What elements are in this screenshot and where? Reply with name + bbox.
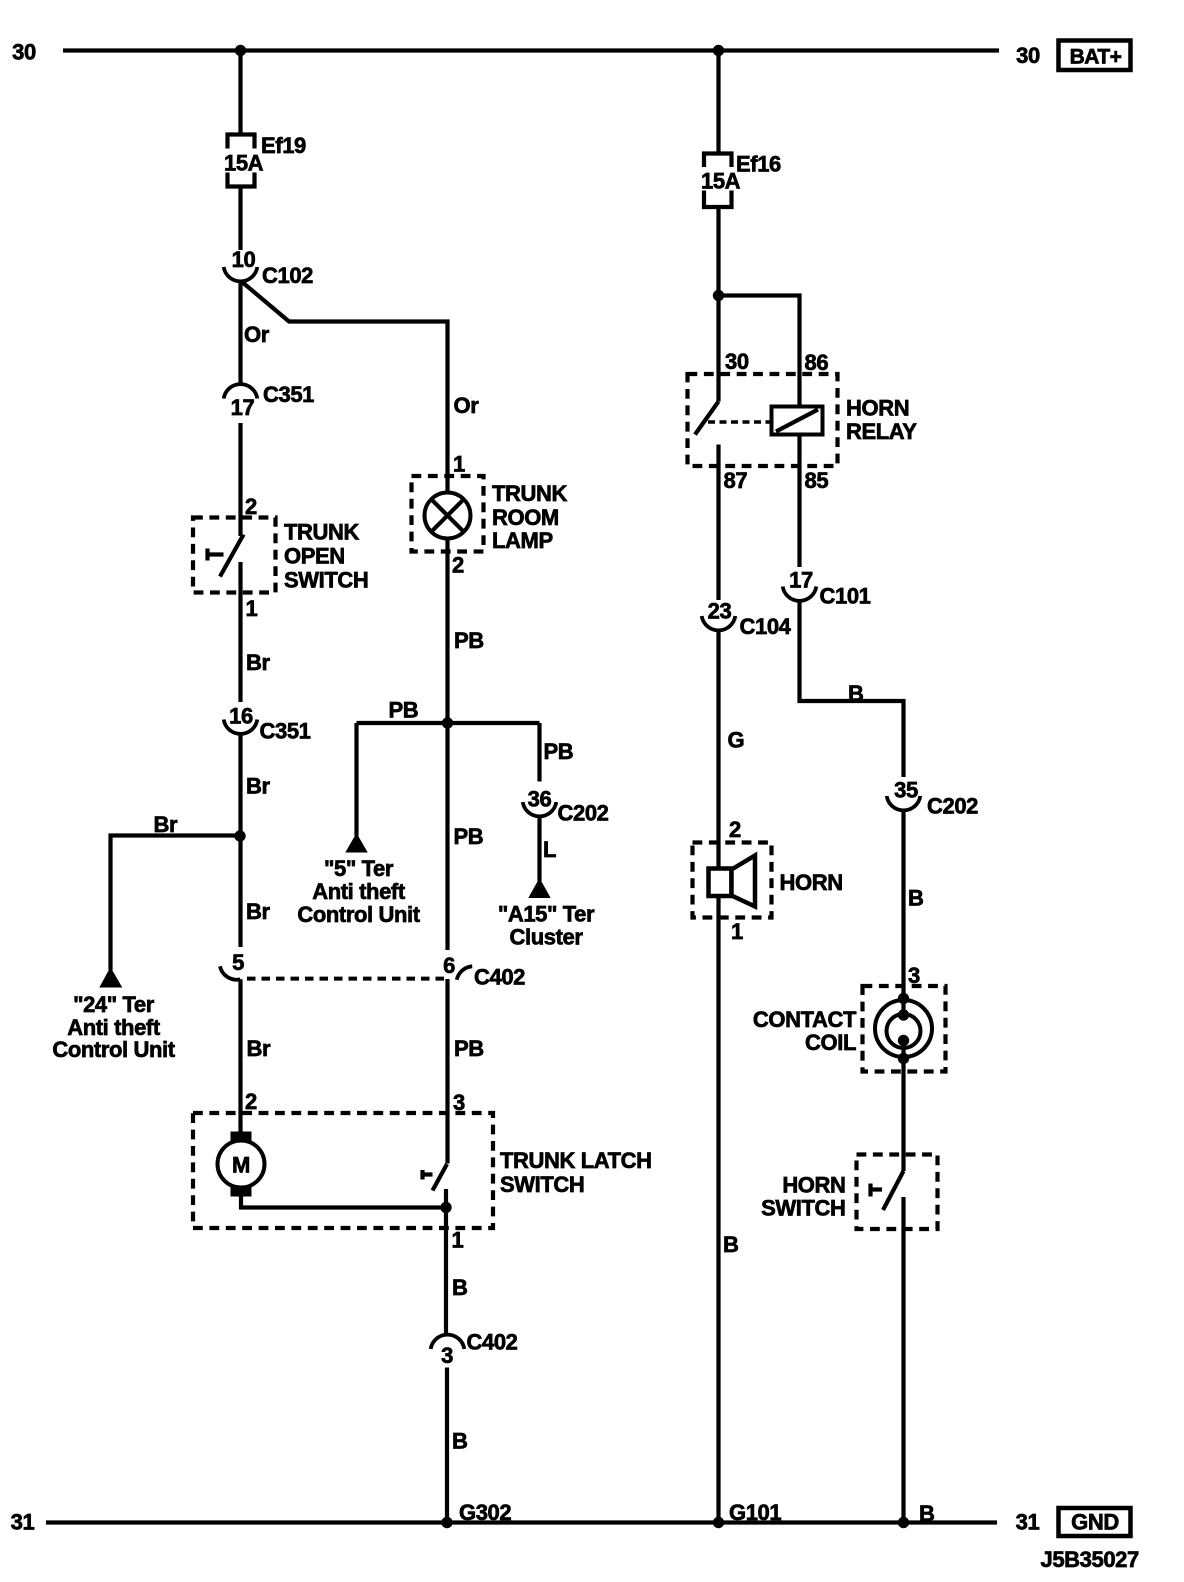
fuse Ef16 15A	[701, 152, 781, 208]
svg-text:SWITCH: SWITCH	[500, 1172, 584, 1197]
contact coil	[875, 993, 932, 1064]
motor M	[218, 1141, 265, 1188]
wire	[238, 423, 242, 536]
wire lamp down	[445, 539, 449, 951]
wire	[716, 207, 720, 296]
svg-text:B: B	[723, 1232, 739, 1257]
svg-text:"24" Ter: "24" Ter	[73, 992, 155, 1017]
svg-text:30: 30	[725, 349, 749, 374]
svg-text:Anti theft: Anti theft	[312, 879, 406, 904]
svg-text:Control Unit: Control Unit	[297, 902, 420, 927]
svg-text:B: B	[848, 681, 864, 706]
svg-text:C101: C101	[820, 584, 871, 609]
wire to horn	[716, 630, 720, 869]
svg-text:86: 86	[805, 350, 829, 375]
svg-text:17: 17	[789, 568, 813, 593]
junction dot bottom right	[898, 1517, 909, 1528]
svg-text:HORN: HORN	[782, 1173, 845, 1198]
horn relay label	[846, 396, 917, 445]
wire to cluster branch	[537, 723, 541, 782]
horn relay box	[688, 374, 838, 466]
trunk open switch label	[284, 520, 368, 593]
svg-text:Control Unit: Control Unit	[52, 1037, 175, 1062]
horn relay coil	[772, 407, 823, 435]
svg-text:Br: Br	[154, 812, 178, 837]
svg-text:COIL: COIL	[805, 1030, 856, 1055]
connector C402 pin 3	[431, 1330, 518, 1369]
svg-text:15A: 15A	[701, 169, 741, 194]
contact coil label	[753, 1007, 857, 1055]
junction right bus	[713, 45, 724, 56]
motor M bottom terminal	[231, 1187, 252, 1197]
node "24" Ter Anti theft Control Unit	[52, 969, 175, 1062]
wire motor to junction	[241, 1197, 446, 1208]
svg-text:C402: C402	[467, 1330, 518, 1355]
wire	[716, 51, 720, 154]
wire jog to B column	[800, 601, 904, 778]
trunk room lamp	[425, 493, 471, 539]
svg-text:ROOM: ROOM	[492, 505, 559, 530]
wire	[444, 1208, 448, 1336]
svg-text:TRUNK: TRUNK	[492, 481, 568, 506]
wire	[537, 816, 541, 881]
trunk latch switch label	[500, 1148, 652, 1197]
svg-text:31: 31	[11, 1510, 35, 1535]
svg-text:PB: PB	[454, 628, 484, 653]
svg-text:HORN: HORN	[780, 870, 843, 895]
svg-text:Br: Br	[246, 899, 270, 924]
trunk room lamp label	[492, 481, 568, 553]
junction dot G302	[441, 1517, 452, 1528]
svg-text:C104: C104	[740, 614, 792, 639]
trunk latch switch plunger	[423, 1170, 433, 1180]
svg-text:1: 1	[452, 1228, 464, 1253]
svg-text:"A15" Ter: "A15" Ter	[498, 902, 595, 927]
svg-text:C102: C102	[262, 263, 313, 288]
svg-text:16: 16	[229, 704, 253, 729]
svg-text:C402: C402	[474, 965, 525, 990]
svg-text:PB: PB	[389, 698, 419, 723]
svg-text:PB: PB	[454, 824, 484, 849]
svg-text:CONTACT: CONTACT	[753, 1007, 857, 1032]
junction dot G101	[713, 1517, 724, 1528]
junction dot latch	[440, 1202, 451, 1213]
svg-text:G: G	[728, 728, 745, 753]
trunk room lamp box	[412, 476, 484, 552]
wire	[238, 734, 242, 948]
svg-text:C202: C202	[558, 801, 609, 826]
svg-text:BAT+: BAT+	[1070, 46, 1122, 69]
wire	[238, 51, 242, 135]
horn relay mech link	[708, 420, 772, 423]
connector C202 pin 35	[887, 778, 978, 819]
wire	[445, 1368, 449, 1523]
wire PB branch horizontal	[357, 721, 540, 725]
trunk latch switch blade	[433, 1164, 448, 1191]
svg-text:Br: Br	[246, 650, 270, 675]
svg-text:85: 85	[805, 468, 829, 493]
svg-text:Or: Or	[244, 322, 270, 347]
svg-text:5: 5	[232, 950, 244, 975]
wire to anti theft 5	[354, 723, 358, 836]
wire	[238, 979, 242, 1131]
svg-text:1: 1	[731, 919, 743, 944]
trunk open switch blade	[220, 535, 244, 577]
motor M top terminal	[231, 1132, 252, 1142]
svg-text:PB: PB	[544, 739, 574, 764]
trunk latch switch fixed contact	[444, 1189, 448, 1208]
svg-text:30: 30	[12, 40, 36, 65]
svg-text:PB: PB	[454, 1036, 484, 1061]
trunk latch switch box	[193, 1113, 493, 1228]
wire bus 31	[46, 1520, 997, 1524]
svg-text:SWITCH: SWITCH	[761, 1196, 845, 1221]
horn switch box	[857, 1155, 938, 1230]
svg-text:Or: Or	[454, 393, 480, 418]
svg-text:2: 2	[245, 1089, 257, 1114]
horn switch label	[761, 1173, 845, 1221]
connector C202 pin 36	[523, 787, 609, 826]
svg-text:TRUNK: TRUNK	[284, 520, 360, 545]
node "A15" Ter Cluster	[498, 880, 595, 950]
wire	[901, 1059, 905, 1172]
connector C402 pin 5	[220, 950, 244, 980]
connector C402 dashed link	[247, 977, 449, 981]
svg-text:23: 23	[708, 599, 732, 624]
connector C402 pin 6	[443, 953, 525, 990]
svg-text:"5" Ter: "5" Ter	[324, 856, 394, 881]
trunk open switch box	[193, 518, 276, 593]
wire horn to ground	[716, 895, 720, 1523]
svg-text:HORN: HORN	[846, 396, 909, 421]
junction dot Br branch	[234, 830, 245, 841]
wire branch to relay coil	[719, 296, 800, 407]
svg-text:L: L	[543, 837, 556, 862]
svg-text:1: 1	[453, 452, 465, 477]
svg-text:30: 30	[1016, 43, 1040, 68]
svg-text:B: B	[452, 1429, 468, 1454]
fuse Ef19 15A	[224, 133, 306, 187]
horn switch fixed contact / wire	[901, 1197, 905, 1523]
wire branch to trunk room lamp	[242, 282, 448, 493]
wire	[901, 810, 905, 999]
node GND	[1059, 1508, 1131, 1536]
wire	[238, 187, 242, 251]
svg-text:OPEN: OPEN	[284, 544, 345, 569]
svg-text:Ef16: Ef16	[736, 152, 781, 177]
svg-text:B: B	[452, 1275, 468, 1300]
svg-text:C351: C351	[263, 382, 314, 407]
connector C351 pin 17	[224, 382, 314, 420]
junction dot relay branch	[713, 290, 724, 301]
svg-text:1: 1	[246, 596, 258, 621]
contact coil box	[863, 986, 946, 1072]
svg-text:Cluster: Cluster	[510, 925, 584, 950]
svg-text:Ef19: Ef19	[261, 133, 306, 158]
svg-text:RELAY: RELAY	[846, 419, 917, 444]
connector C102 pin 10	[224, 247, 313, 288]
connector C351 pin 16	[224, 704, 311, 744]
svg-text:31: 31	[1016, 1510, 1040, 1535]
svg-text:C202: C202	[927, 794, 978, 819]
svg-text:6: 6	[443, 953, 455, 978]
wire branch to anti theft 24	[111, 836, 241, 971]
svg-text:J5B35027: J5B35027	[1041, 1547, 1139, 1572]
svg-text:LAMP: LAMP	[492, 528, 553, 553]
wire relay coil down	[797, 435, 801, 568]
horn speaker	[709, 856, 756, 907]
svg-text:TRUNK LATCH: TRUNK LATCH	[500, 1148, 652, 1173]
connector C101 pin 17	[783, 568, 871, 609]
wire from C402-6 down	[445, 979, 449, 1164]
svg-text:87: 87	[724, 468, 748, 493]
svg-text:2: 2	[729, 817, 741, 842]
horn switch blade	[883, 1171, 904, 1210]
svg-text:2: 2	[245, 494, 257, 519]
wire bus 30	[63, 48, 999, 52]
wire relay pin 30	[716, 296, 720, 402]
svg-text:B: B	[908, 886, 924, 911]
node "5" Ter Anti theft Control Unit	[297, 835, 420, 927]
svg-text:M: M	[232, 1153, 250, 1178]
svg-text:2: 2	[452, 553, 464, 578]
svg-text:Br: Br	[247, 1036, 271, 1061]
svg-text:Br: Br	[246, 774, 270, 799]
svg-text:C351: C351	[260, 719, 311, 744]
svg-text:35: 35	[894, 778, 918, 803]
svg-text:GND: GND	[1071, 1510, 1119, 1535]
wire relay pin 87	[716, 445, 720, 601]
svg-text:SWITCH: SWITCH	[284, 568, 368, 593]
trunk open switch plunger	[208, 549, 224, 561]
svg-text:10: 10	[232, 247, 256, 272]
horn relay switch blade	[695, 402, 719, 435]
junction left bus	[235, 45, 246, 56]
svg-text:36: 36	[528, 787, 552, 812]
connector C104 pin 23	[702, 599, 792, 640]
junction dot PB	[442, 717, 453, 728]
horn switch plunger	[871, 1184, 883, 1197]
trunk open switch fixed contact / wire	[238, 562, 242, 702]
node BAT+	[1059, 41, 1131, 71]
wire Or vertical	[238, 281, 242, 385]
svg-text:3: 3	[441, 1343, 453, 1368]
svg-text:17: 17	[231, 395, 255, 420]
horn box	[693, 843, 772, 918]
svg-text:15A: 15A	[224, 151, 264, 176]
